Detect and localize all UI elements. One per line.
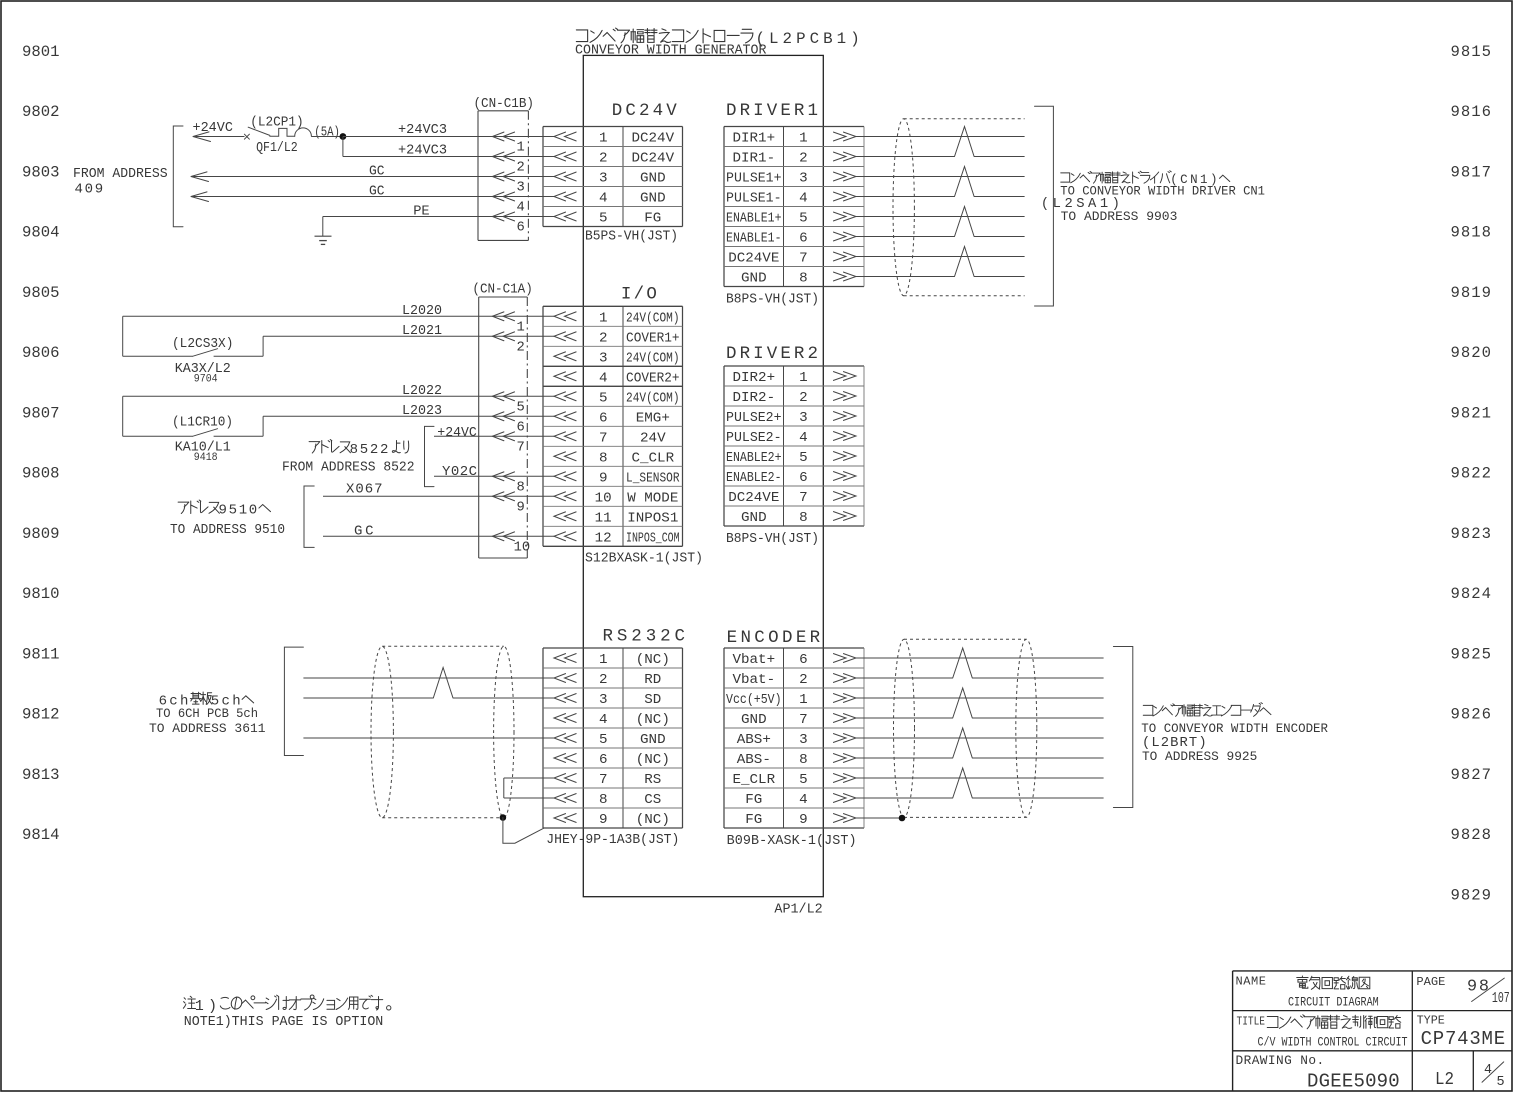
svg-text:9829: 9829 <box>1451 886 1492 904</box>
wires DRIVER1 pins1-8 <box>856 137 1025 277</box>
svg-text:5: 5 <box>799 211 808 227</box>
ground symbol PE <box>315 236 332 244</box>
title block grid <box>1233 971 1512 1091</box>
title block sheet 4/5 <box>1482 1062 1505 1090</box>
title block title japanese C/V width control circuit <box>1267 1015 1400 1029</box>
svg-text:QF1/L2: QF1/L2 <box>256 140 298 156</box>
svg-text:DIR1+: DIR1+ <box>733 131 776 147</box>
svg-text:L2: L2 <box>1435 1070 1454 1090</box>
twisted pair symbols ENCODER <box>953 648 973 798</box>
junction dot FG shield ENCODER <box>899 815 906 822</box>
svg-text:9825: 9825 <box>1451 645 1492 663</box>
svg-text:B5PS-VH(JST): B5PS-VH(JST) <box>585 230 678 245</box>
svg-text:B09B-XASK-1(JST): B09B-XASK-1(JST) <box>727 834 857 849</box>
label (L2CP1) <box>250 114 303 130</box>
svg-text:(CN-C1B): (CN-C1B) <box>474 96 535 112</box>
label TO ADDRESS 9903 <box>1061 209 1178 224</box>
svg-text:9826: 9826 <box>1451 706 1492 724</box>
svg-text:2: 2 <box>517 341 525 356</box>
svg-text:Vbat-: Vbat- <box>733 672 776 688</box>
svg-text:GND: GND <box>741 712 767 728</box>
svg-text:ENABLE2+: ENABLE2+ <box>726 450 782 466</box>
svg-text:9: 9 <box>517 501 525 516</box>
title block name japanese 電気回路線図 <box>1297 976 1370 989</box>
connector DRIVER2 table <box>724 366 864 526</box>
svg-text:(NC): (NC) <box>636 752 670 768</box>
svg-text:(L1CR10): (L1CR10) <box>172 415 233 431</box>
svg-text:TITLE: TITLE <box>1237 1015 1266 1029</box>
svg-text:FG: FG <box>745 792 762 808</box>
wire L2023 net <box>263 415 554 417</box>
svg-text:FG: FG <box>745 812 762 828</box>
svg-text:+24VC3: +24VC3 <box>398 122 447 138</box>
wire GC to CN-C1A pin10 <box>323 535 554 537</box>
svg-text:9828: 9828 <box>1451 826 1492 844</box>
svg-text:9818: 9818 <box>1451 224 1492 242</box>
title block DRAWING No. <box>1236 1053 1325 1068</box>
wire PE to CN-C1B pin6 <box>323 216 554 218</box>
svg-text:2: 2 <box>599 331 608 347</box>
relay contact KA10/L1 (L1CR10) <box>123 396 263 436</box>
label QF1/L2 <box>256 140 298 156</box>
svg-text:7: 7 <box>799 490 808 506</box>
svg-text:DRAWING No.: DRAWING No. <box>1236 1053 1325 1068</box>
svg-text:DRIVER2: DRIVER2 <box>726 344 818 364</box>
title block NAME <box>1236 975 1267 989</box>
svg-text:TO 6CH PCB 5ch: TO 6CH PCB 5ch <box>156 706 258 721</box>
svg-text:9824: 9824 <box>1451 585 1492 603</box>
svg-text:X067: X067 <box>346 482 383 498</box>
svg-text:FROM ADDRESS: FROM ADDRESS <box>73 166 168 182</box>
svg-text:9: 9 <box>799 812 808 828</box>
svg-text:6: 6 <box>799 470 808 486</box>
connector I/O table <box>543 306 683 546</box>
svg-text:PULSE2+: PULSE2+ <box>726 410 782 426</box>
title block C/V WIDTH CONTROL CIRCUIT <box>1258 1035 1408 1050</box>
svg-text:INPOS1: INPOS1 <box>627 510 678 526</box>
svg-text:6: 6 <box>799 231 808 247</box>
svg-text:8: 8 <box>799 510 808 526</box>
circuit breaker QF1/L2 (L2CP1 5A) <box>244 127 311 139</box>
svg-text:W MODE: W MODE <box>627 490 678 506</box>
svg-text:6: 6 <box>517 221 525 236</box>
label +24VC (CN-C1A pin7) <box>437 425 477 441</box>
title english: CONVEYOR WIDTH GENERATOR <box>575 43 767 59</box>
svg-text:FROM ADDRESS 8522: FROM ADDRESS 8522 <box>282 460 415 476</box>
svg-text:RS: RS <box>644 772 661 788</box>
svg-text:ABS-: ABS- <box>737 752 771 768</box>
label (CN-C1A) <box>472 281 532 297</box>
svg-text:9802: 9802 <box>22 103 60 121</box>
svg-text:TO ADDRESS 9510: TO ADDRESS 9510 <box>170 522 285 538</box>
wire RD to RS232C pin2 <box>303 677 554 679</box>
svg-text:3: 3 <box>599 351 608 367</box>
svg-text:9823: 9823 <box>1451 525 1492 543</box>
svg-text:NOTE1)THIS PAGE IS OPTION: NOTE1)THIS PAGE IS OPTION <box>184 1015 383 1030</box>
svg-text:9807: 9807 <box>22 404 60 422</box>
cable shield DRIVER1 (dotted) <box>893 119 1025 296</box>
svg-text:9819: 9819 <box>1451 284 1492 302</box>
svg-text:8: 8 <box>799 752 808 768</box>
svg-text:GND: GND <box>640 171 666 187</box>
label L2020 <box>402 303 442 319</box>
svg-text:DC24VE: DC24VE <box>728 251 779 267</box>
svg-text:9810: 9810 <box>22 585 60 603</box>
label (L2SA1) <box>1041 196 1120 212</box>
svg-text:(NC): (NC) <box>636 812 670 828</box>
svg-text:1: 1 <box>799 370 808 386</box>
label KA3X/L2 <box>175 361 231 377</box>
svg-text:TO ADDRESS 9925: TO ADDRESS 9925 <box>1142 749 1257 764</box>
svg-text:E_CLR: E_CLR <box>733 772 776 788</box>
connector DRIVER1 header <box>726 101 818 121</box>
label TO CONVEYOR WIDTH DRIVER CN1 <box>1060 183 1265 198</box>
connector DRIVER2 part number label <box>726 532 819 547</box>
left grid reference labels 9801-9814 <box>22 43 60 844</box>
svg-text:8: 8 <box>799 271 808 287</box>
svg-text:GC: GC <box>369 184 385 200</box>
svg-text:CIRCUIT DIAGRAM: CIRCUIT DIAGRAM <box>1288 994 1379 1009</box>
svg-text:1: 1 <box>799 692 808 708</box>
label TO ADDRESS 9925 <box>1142 749 1257 764</box>
cable shield RS232C (dotted) <box>371 646 514 817</box>
svg-text:9803: 9803 <box>22 164 60 182</box>
svg-text:PAGE: PAGE <box>1416 975 1445 989</box>
wire jumper RS-CS pins7-8 <box>504 778 554 798</box>
connector I/O header <box>621 285 657 305</box>
svg-text:ABS+: ABS+ <box>737 732 771 748</box>
svg-text:TO CONVEYOR WIDTH DRIVER CN1: TO CONVEYOR WIDTH DRIVER CN1 <box>1060 183 1265 198</box>
label L2021 <box>402 323 442 339</box>
connector RS232C part number label <box>546 833 679 848</box>
svg-text:DGEE5090: DGEE5090 <box>1307 1071 1400 1093</box>
label TO 6CH PCB 5ch <box>156 706 258 721</box>
svg-text:ENABLE1-: ENABLE1- <box>726 231 782 247</box>
wire +24VC3 to CN-C1B pin2 <box>343 137 554 157</box>
svg-text:Vcc(+5V): Vcc(+5V) <box>726 692 782 708</box>
connector DC24V pins and chevrons <box>554 131 675 227</box>
connector ENCODER header <box>727 628 821 648</box>
svg-text:98: 98 <box>1467 978 1489 997</box>
label 9418 <box>194 452 218 464</box>
svg-text:Y02C: Y02C <box>442 464 477 480</box>
svg-text:(5A): (5A) <box>314 125 340 141</box>
svg-text:+24VC: +24VC <box>437 425 477 441</box>
wire L2022 net <box>123 395 554 397</box>
svg-text:GND: GND <box>741 510 767 526</box>
svg-text:GND: GND <box>741 271 767 287</box>
svg-text:CS: CS <box>644 792 661 808</box>
svg-text:PE: PE <box>413 204 430 220</box>
svg-text:(NC): (NC) <box>636 712 670 728</box>
svg-text:+24VC3: +24VC3 <box>398 142 447 158</box>
junction dot shield drain RS232C <box>500 814 507 821</box>
svg-text:RD: RD <box>644 672 661 688</box>
label (CN-C1B) <box>474 96 535 112</box>
svg-text:6: 6 <box>599 411 608 427</box>
wire L2020 net <box>123 315 554 317</box>
svg-text:(L2CS3X): (L2CS3X) <box>172 336 233 352</box>
label 6ch pcb japanese <box>159 692 254 710</box>
svg-text:DC24V: DC24V <box>632 131 675 147</box>
svg-text:409: 409 <box>75 182 104 198</box>
svg-text:6: 6 <box>799 652 808 668</box>
svg-text:2: 2 <box>517 161 525 176</box>
svg-text:9806: 9806 <box>22 344 60 362</box>
wire SD to RS232C pin3 <box>303 697 554 699</box>
connector DC24V part number label <box>585 230 678 245</box>
connector I/O part number label <box>585 552 703 567</box>
svg-text:EMG+: EMG+ <box>636 410 670 426</box>
svg-text:9812: 9812 <box>22 706 60 724</box>
connector DRIVER1 table <box>724 127 864 287</box>
svg-text:3: 3 <box>517 181 525 196</box>
svg-text:7: 7 <box>799 712 808 728</box>
svg-text:9704: 9704 <box>194 374 218 386</box>
svg-text:4: 4 <box>1484 1063 1492 1078</box>
svg-text:INPOS_COM: INPOS_COM <box>626 530 680 546</box>
svg-text:7: 7 <box>517 441 525 456</box>
svg-text:DRIVER1: DRIVER1 <box>726 101 818 121</box>
svg-text:PULSE1-: PULSE1- <box>726 191 782 207</box>
bracket TO CONVEYOR WIDTH ENCODER <box>1113 647 1132 808</box>
svg-text:6: 6 <box>599 752 608 768</box>
wire PE drop to ground <box>322 217 324 237</box>
relay contact KA3X/L2 (L2CS3X) <box>123 316 263 356</box>
svg-text:SD: SD <box>644 692 661 708</box>
label TO ADDRESS 9510 <box>170 522 285 538</box>
svg-text:NAME: NAME <box>1236 975 1267 989</box>
label TO CONVEYOR WIDTH ENCODER <box>1141 721 1328 736</box>
svg-text:9827: 9827 <box>1451 766 1492 784</box>
svg-text:1: 1 <box>599 652 608 668</box>
svg-text:9813: 9813 <box>22 766 60 784</box>
svg-text:FG: FG <box>644 211 661 227</box>
svg-text:8: 8 <box>517 481 525 496</box>
connector CN-C1A dashed outline <box>479 297 528 558</box>
svg-text:4: 4 <box>517 201 525 216</box>
note english NOTE1 <box>184 1015 383 1030</box>
label FROM ADDRESS 8522 <box>282 460 415 476</box>
svg-text:9811: 9811 <box>22 645 60 663</box>
svg-text:GND: GND <box>640 191 666 207</box>
svg-text:TO ADDRESS 3611: TO ADDRESS 3611 <box>149 721 266 736</box>
svg-text:7: 7 <box>599 431 608 447</box>
twisted pair symbol RD/SD <box>433 668 453 699</box>
svg-text:2: 2 <box>599 672 608 688</box>
twisted pair symbols DRIVER1 <box>955 127 975 277</box>
svg-text:24V(COM): 24V(COM) <box>626 390 680 406</box>
connector CN-C1B pin chevrons and numbers <box>492 132 524 236</box>
svg-text:9805: 9805 <box>22 284 60 302</box>
connector RS232C header <box>603 627 686 647</box>
svg-text:9510: 9510 <box>219 502 258 518</box>
svg-text:9822: 9822 <box>1451 465 1492 483</box>
svg-text:L_SENSOR: L_SENSOR <box>626 470 680 486</box>
wire X067 to CN-C1A pin9 <box>323 495 554 497</box>
svg-text:C/V WIDTH CONTROL CIRCUIT: C/V WIDTH CONTROL CIRCUIT <box>1258 1035 1408 1050</box>
svg-text:CP743ME: CP743ME <box>1421 1028 1506 1050</box>
svg-text:3: 3 <box>799 732 808 748</box>
label X067 <box>346 482 383 498</box>
title block sheet L2 <box>1435 1070 1454 1090</box>
svg-text:8522: 8522 <box>350 442 389 458</box>
svg-text:TYPE: TYPE <box>1417 1013 1445 1027</box>
svg-text:2: 2 <box>599 151 608 167</box>
svg-text:9821: 9821 <box>1451 404 1492 422</box>
label AP1/L2 <box>774 902 822 918</box>
svg-text:4: 4 <box>599 371 608 387</box>
svg-text:24V(COM): 24V(COM) <box>626 310 680 326</box>
label address 8522 japanese <box>309 440 409 458</box>
wire shield drain to connector <box>503 818 544 844</box>
svg-text:5: 5 <box>799 450 808 466</box>
svg-text:7: 7 <box>799 251 808 267</box>
svg-text:JHEY-9P-1A3B(JST): JHEY-9P-1A3B(JST) <box>546 833 679 848</box>
label address 9510 japanese <box>178 500 270 518</box>
svg-text:B8PS-VH(JST): B8PS-VH(JST) <box>726 532 819 547</box>
title block CIRCUIT DIAGRAM <box>1288 994 1379 1009</box>
connector DRIVER2 pins and chevrons <box>726 370 856 526</box>
label (L2BRT) <box>1142 735 1207 751</box>
svg-text:I/O: I/O <box>621 285 657 305</box>
wire L2021 net <box>263 335 554 337</box>
wire GC to CN-C1B pin3 <box>191 172 554 182</box>
title block type CP743ME <box>1421 1028 1506 1050</box>
label PE <box>413 204 430 220</box>
svg-text:9801: 9801 <box>22 43 60 61</box>
svg-text:1: 1 <box>517 321 525 336</box>
svg-text:DC24V: DC24V <box>612 101 677 121</box>
svg-text:DC24VE: DC24VE <box>728 490 779 506</box>
connector DC24V table <box>543 127 683 227</box>
svg-text:PULSE1+: PULSE1+ <box>726 171 782 187</box>
svg-text:24V(COM): 24V(COM) <box>626 350 680 366</box>
svg-text:GND: GND <box>640 732 666 748</box>
connector ENCODER pins and chevrons <box>726 652 856 828</box>
svg-text:24V: 24V <box>640 430 666 446</box>
wire breaker to junction <box>311 136 343 138</box>
label conveyor width encoder japanese <box>1143 703 1271 717</box>
connector DC24V header <box>612 101 677 121</box>
svg-text:3: 3 <box>799 410 808 426</box>
junction dot +24VC3 node <box>340 133 347 140</box>
connector RS232C pins and chevrons <box>554 652 670 828</box>
svg-text:GC: GC <box>369 164 385 180</box>
wire GC to CN-C1B pin4 <box>191 192 554 202</box>
svg-text:DIR1-: DIR1- <box>733 151 776 167</box>
svg-text:S12BXASK-1(JST): S12BXASK-1(JST) <box>585 552 703 567</box>
svg-text:(L2CP1): (L2CP1) <box>250 114 303 130</box>
note japanese: this page is option <box>183 995 391 1015</box>
svg-text:9809: 9809 <box>22 525 60 543</box>
connector CN-C1B dashed outline <box>478 111 528 241</box>
svg-text:6: 6 <box>517 421 525 436</box>
connector DRIVER2 header <box>726 344 818 364</box>
svg-text:1: 1 <box>799 131 808 147</box>
label Y02C <box>442 464 477 480</box>
svg-text:4: 4 <box>599 712 608 728</box>
bracket FROM ADDRESS 409 <box>173 126 183 227</box>
svg-text:4: 4 <box>799 792 808 808</box>
connector RS232C table <box>543 648 683 828</box>
svg-text:10: 10 <box>595 491 612 507</box>
title block drawing number DGEE5090 <box>1307 1071 1400 1093</box>
svg-text:8: 8 <box>599 451 608 467</box>
svg-text:5: 5 <box>799 772 808 788</box>
bracket TO 6CH PCB <box>284 647 303 755</box>
right grid reference labels 9815-9829 <box>1451 43 1492 904</box>
wires ENCODER pins <box>856 658 1104 818</box>
title block PAGE <box>1416 975 1445 989</box>
connector I/O pins and chevrons <box>554 310 680 546</box>
label (5A) <box>314 125 340 141</box>
svg-text:AP1/L2: AP1/L2 <box>774 902 822 918</box>
wire GND to RS232C pin5 <box>303 737 554 739</box>
svg-text:5: 5 <box>517 401 525 416</box>
title block TITLE <box>1237 1015 1266 1029</box>
svg-text:9816: 9816 <box>1451 103 1492 121</box>
label L2023 <box>402 403 442 419</box>
bracket TO CONVEYOR WIDTH DRIVER <box>1035 106 1054 306</box>
label 9704 <box>194 374 218 386</box>
svg-text:TO ADDRESS 9903: TO ADDRESS 9903 <box>1061 209 1178 224</box>
svg-text:(CN-C1A): (CN-C1A) <box>472 281 532 297</box>
I/O group divider lines <box>543 366 683 386</box>
wire +24VC3 to CN-C1B pin1 <box>343 136 554 138</box>
PCB block AP1/L2 outline <box>583 55 823 896</box>
title japanese: conveyor width controller (L2PCB1) <box>576 28 859 48</box>
svg-text:2: 2 <box>799 390 808 406</box>
label +24VC3 (pin1) <box>398 122 447 138</box>
label +24VC <box>193 120 233 136</box>
svg-text:8: 8 <box>599 792 608 808</box>
svg-text:CONVEYOR WIDTH GENERATOR: CONVEYOR WIDTH GENERATOR <box>575 43 767 59</box>
svg-text:ENABLE2-: ENABLE2- <box>726 470 782 486</box>
svg-text:DC24V: DC24V <box>632 151 675 167</box>
svg-text:(NC): (NC) <box>636 652 670 668</box>
svg-text:12: 12 <box>595 531 612 547</box>
label GC (pin3) <box>369 164 385 180</box>
svg-text:+24VC: +24VC <box>193 120 233 136</box>
svg-text:PULSE2-: PULSE2- <box>726 430 782 446</box>
svg-text:4: 4 <box>799 430 808 446</box>
connector DRIVER1 part number label <box>726 293 819 308</box>
svg-text:DIR2+: DIR2+ <box>733 370 776 386</box>
bracket TO ADDRESS 9510 <box>304 486 314 547</box>
svg-text:9: 9 <box>599 812 608 828</box>
svg-text:107: 107 <box>1492 990 1510 1007</box>
wire +24VC with arrow <box>193 132 245 142</box>
svg-text:4: 4 <box>799 191 808 207</box>
svg-text:9814: 9814 <box>22 826 60 844</box>
svg-text:7: 7 <box>599 772 608 788</box>
svg-text:5: 5 <box>599 732 608 748</box>
svg-text:10: 10 <box>514 541 531 556</box>
bracket FROM ADDRESS 8522 <box>425 426 435 486</box>
svg-text:2: 2 <box>799 151 808 167</box>
label GC (CN-C1A pin10) <box>354 524 374 540</box>
svg-text:TO CONVEYOR WIDTH ENCODER: TO CONVEYOR WIDTH ENCODER <box>1141 721 1328 736</box>
connector DRIVER1 pins and chevrons <box>726 131 856 287</box>
svg-text:9: 9 <box>599 471 608 487</box>
label FROM ADDRESS 409 <box>73 166 168 198</box>
svg-text:2: 2 <box>799 672 808 688</box>
label conveyor width driver japanese <box>1061 171 1230 187</box>
svg-text:3: 3 <box>599 692 608 708</box>
label (L2CS3X) <box>172 336 233 352</box>
svg-text:9808: 9808 <box>22 465 60 483</box>
